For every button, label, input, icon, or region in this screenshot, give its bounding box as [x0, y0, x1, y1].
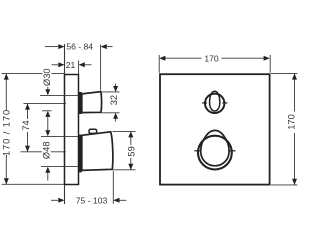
dim Ø30 top reference line: [40, 94, 79, 96]
large knob right tick: [228, 150, 235, 152]
label 170 right: [286, 114, 296, 130]
svg-text:Ø30: Ø30: [42, 68, 52, 86]
svg-text:56 - 84: 56 - 84: [66, 42, 93, 52]
dim front 170 right top extension line: [271, 72, 298, 74]
front square plate 170x170: [160, 74, 270, 184]
dim 59 top reference line: [113, 130, 136, 132]
dim 170/170 bottom extension line: [2, 183, 65, 185]
label 21: [66, 60, 76, 69]
lower handle body (volume knob, side): [82, 132, 113, 171]
dim 75-103 right extension line: [112, 171, 114, 204]
label 56-84: [2, 42, 297, 206]
safety stop button: [89, 129, 97, 133]
small knob left tick: [202, 102, 207, 104]
label 32: [109, 94, 119, 107]
svg-text:75 - 103: 75 - 103: [76, 195, 108, 205]
dim Ø30 bottom reference line: [42, 110, 52, 112]
small knob grip egg shape: [210, 91, 220, 111]
dim 21 right extension line: [78, 61, 80, 75]
dim Ø48 bottom reference line: [41, 166, 79, 168]
label 75-103: [75, 196, 109, 205]
large knob grip egg shape: [201, 130, 229, 165]
upper handle body (temperature knob, side): [82, 92, 102, 113]
small knob right tick: [222, 102, 227, 104]
dim Ø30 arrows: [47, 86, 49, 89]
dim 56-84 right extension line: [100, 45, 102, 91]
large knob outer circle (front): [198, 136, 232, 170]
dim 59 dimension line with arrows: [130, 131, 132, 169]
svg-text:21: 21: [66, 60, 76, 70]
dim 170/170 top extension line: [2, 73, 65, 75]
dim 59 bottom reference line: [113, 169, 136, 171]
dim 32 top reference line: [101, 91, 120, 93]
dim Ø48 arrows: [45, 130, 50, 136]
svg-text:59: 59: [126, 146, 136, 156]
escutcheon plate (side view): [65, 75, 79, 185]
label 74: [21, 119, 31, 132]
label 170/170 left: [2, 109, 12, 156]
upper handle centerline: [24, 103, 67, 105]
dim 75-103 dimension line with arrows: [51, 199, 58, 201]
wall reference line: [64, 44, 66, 204]
dim front 170 top dimension line with arrows: [165, 57, 201, 59]
svg-text:74: 74: [21, 120, 31, 130]
dim 170/170 dimension line with arrows: [5, 74, 7, 185]
dim front 170 right dimension line with arrows: [294, 73, 296, 111]
small knob outer circle (front): [205, 94, 224, 113]
label diameter48: [42, 141, 52, 160]
label 59: [126, 145, 136, 158]
lower handle centerline: [21, 151, 67, 153]
dim front 170 right bottom extension line: [271, 184, 298, 186]
svg-text:170 / 170: 170 / 170: [2, 109, 12, 156]
dim 32 bottom reference line: [101, 112, 119, 114]
lower handle collar: [79, 135, 82, 173]
svg-text:Ø48: Ø48: [42, 142, 52, 160]
svg-text:32: 32: [109, 95, 119, 105]
svg-text:170: 170: [204, 53, 219, 63]
dim 74 dimension line with arrows: [27, 104, 29, 152]
upper handle collar: [79, 92, 82, 114]
dim 56-84 dimension line with arrows: [45, 46, 58, 48]
svg-text:170: 170: [286, 114, 296, 130]
dim front 170 top left extension line: [158, 55, 160, 73]
large knob left tick: [194, 150, 201, 152]
dim Ø48 top reference line: [41, 135, 79, 137]
dim 21 dimension line with arrows: [52, 64, 59, 66]
dim 32 arrows: [115, 84, 117, 87]
dim front 170 top right extension line: [269, 55, 271, 73]
label 170 top: [203, 54, 221, 63]
label diameter30: [42, 68, 52, 87]
